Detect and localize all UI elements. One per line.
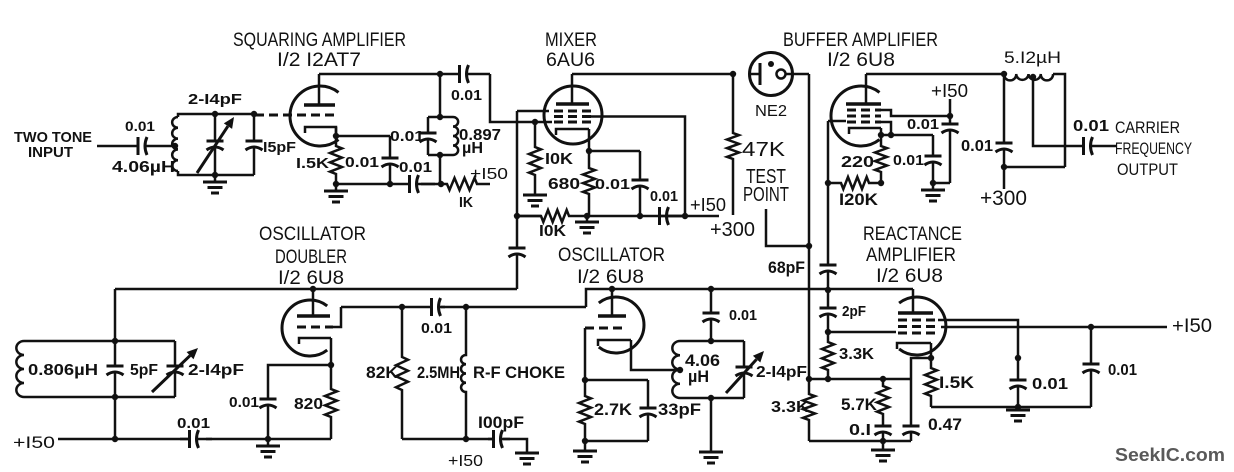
wire V3 plate up — [865, 74, 868, 104]
node mixer grid — [532, 119, 538, 125]
wire injection corner to rail — [516, 288, 519, 289]
tube V2 mixer 6AU6 — [544, 86, 602, 144]
capacitor 2-14pF doubler variable — [174, 341, 177, 366]
svg-text:I0K: I0K — [539, 223, 566, 240]
ground mixer grid — [534, 188, 537, 195]
inductor 5.12uH — [1004, 74, 1053, 80]
wire feedback line 2 — [441, 306, 586, 309]
plate V1 — [304, 103, 335, 107]
node tank bottom mid — [212, 172, 218, 178]
node V2 cathode — [586, 148, 592, 154]
ground squaring cathode — [335, 184, 338, 191]
resistor 1.5K react — [925, 358, 937, 407]
wire V2 cathode lead — [588, 129, 591, 151]
svg-text:I/2 6U8: I/2 6U8 — [278, 268, 344, 289]
capacitor 0.01 output tank — [1003, 74, 1006, 143]
svg-text:0.47: 0.47 — [928, 415, 962, 434]
wire cathode to cap — [589, 150, 640, 153]
inductor 0.806uH — [16, 341, 24, 397]
svg-text:5.7K: 5.7K — [841, 395, 878, 414]
wire V1 cathode lead — [335, 127, 338, 136]
wire coil tap down — [1033, 77, 1081, 146]
tube V4 oscillator doubler 1/2 6U8 — [282, 300, 327, 356]
inductor 4.06uH input — [172, 117, 178, 171]
node V6 cathode — [928, 355, 934, 361]
wire 82K bottom rail — [402, 438, 494, 441]
node sq ground rail left — [333, 181, 339, 187]
wire tank top vert — [439, 74, 442, 117]
node react bias rail left — [806, 376, 812, 382]
wire V1 plate rail — [319, 73, 440, 76]
tube V3 buffer 1/2 6U8 — [831, 86, 880, 146]
wire tank bottom vert — [439, 155, 442, 184]
svg-text:0.I: 0.I — [849, 422, 871, 439]
node 220 bottom — [878, 180, 884, 186]
svg-text:I/2 I2AT7: I/2 I2AT7 — [277, 50, 361, 71]
wire NE2 down to reactance — [808, 246, 811, 379]
wire V5 cathode lead — [631, 340, 680, 370]
grid V2 g2 dashed — [554, 115, 591, 118]
svg-text:0.806µH: 0.806µH — [28, 362, 98, 379]
wire V3 screen tap — [881, 110, 950, 116]
node doubler cathode ground — [265, 436, 271, 442]
node choke top — [463, 304, 469, 310]
svg-text:NE2: NE2 — [755, 103, 787, 120]
wire V3 suppressor tap — [881, 122, 891, 135]
wire react cathode bottom rail — [931, 406, 1091, 409]
wire V3 cathode lead — [880, 128, 883, 135]
svg-text:0.01: 0.01 — [595, 176, 630, 193]
svg-text:I.5K: I.5K — [939, 373, 975, 392]
node buffer screen +150 — [947, 113, 953, 119]
node +150 rail tank — [112, 436, 118, 442]
wire react grid line — [828, 331, 896, 334]
wire V2 plate up — [571, 74, 574, 104]
node react bottom ground — [1015, 404, 1021, 410]
resistor 3.3K upper — [822, 332, 834, 379]
inductor 0.897uH — [453, 117, 458, 155]
capacitor 2-14pF osc variable — [743, 341, 746, 367]
capacitor 0.01 coupling to mixer — [440, 73, 460, 76]
wire buffer grid — [828, 120, 846, 123]
electrode NE2 bar — [759, 63, 762, 85]
capacitor 0.1 — [882, 421, 885, 426]
svg-text:I0K: I0K — [545, 151, 573, 168]
svg-text:0.01: 0.01 — [1032, 376, 1068, 393]
node output tank left — [1001, 71, 1007, 77]
node mixer ground node — [584, 213, 590, 219]
wire +300 stub — [1003, 167, 1006, 189]
inductor 2.5MH RF choke — [461, 307, 466, 439]
svg-text:0.01: 0.01 — [125, 118, 155, 134]
node suppressor-cathode — [888, 132, 894, 138]
node 15pF top — [251, 111, 257, 117]
capacitor 0.01 output coupling — [1081, 145, 1084, 148]
grid V3 g3 dashed — [847, 121, 881, 124]
capacitor 0.01 +150 rail — [180, 438, 190, 441]
wire doubler cathode left — [268, 365, 331, 398]
svg-text:0.01: 0.01 — [451, 87, 482, 104]
wire tank bottom right — [215, 174, 254, 177]
ground oscillator grid — [584, 441, 587, 451]
ground react cathode — [1017, 407, 1020, 410]
svg-text:2-I4pF: 2-I4pF — [756, 364, 807, 381]
svg-text:+I50: +I50 — [13, 433, 55, 452]
svg-text:0.01: 0.01 — [421, 320, 452, 337]
node 82K top — [399, 304, 405, 310]
capacitor 0.01 +150 react — [1090, 327, 1093, 364]
svg-text:3.3K: 3.3K — [839, 346, 874, 363]
grid V6 g1 dashed — [898, 319, 935, 322]
svg-text:220: 220 — [841, 154, 874, 171]
wire +150 rail left — [58, 438, 190, 441]
capacitor 0.01 tank — [427, 117, 430, 133]
wire dbl tank to +150 rail — [114, 397, 117, 439]
svg-text:0.01: 0.01 — [399, 159, 432, 176]
node coil tap — [1030, 74, 1036, 80]
wire doubler rail down to tank — [114, 289, 117, 341]
ground osc tank — [710, 451, 713, 454]
wire feedback to osc plate — [586, 289, 612, 307]
resistor 1.5K — [330, 136, 342, 184]
wire V1 plate up — [318, 74, 321, 105]
grid V3 g1 dashed — [847, 109, 881, 112]
cathode V3 — [849, 128, 881, 134]
svg-text:I20K: I20K — [839, 190, 879, 209]
node react rail 68pF — [825, 287, 831, 293]
svg-text:DOUBLER: DOUBLER — [275, 247, 347, 268]
wire V4 grid tap — [333, 307, 341, 327]
node osc rail 0.01 — [708, 286, 714, 292]
wire dbl tank bottom bar — [24, 396, 175, 399]
svg-text:47K: 47K — [742, 139, 786, 161]
svg-text:I.5K: I.5K — [296, 155, 329, 172]
node react grid node — [825, 329, 831, 335]
resistor 220 — [875, 135, 887, 183]
resistor 2.7K — [579, 380, 591, 441]
grid V6 g3 dashed — [898, 332, 935, 335]
svg-text:FREQUENCY: FREQUENCY — [1115, 139, 1192, 158]
capacitor 100pF — [488, 438, 494, 441]
grid V2 g3 dashed — [554, 110, 591, 113]
svg-text:BUFFER AMPLIFIER: BUFFER AMPLIFIER — [783, 30, 938, 51]
resistor 120K — [828, 177, 881, 189]
capacitor 68pF — [827, 183, 830, 265]
node osc tank tap — [677, 367, 683, 373]
ground doubler cathode — [267, 439, 270, 446]
capacitor 0.01 buffer cathode — [932, 135, 935, 156]
svg-text:0.01: 0.01 — [961, 138, 993, 155]
svg-text:MIXER: MIXER — [545, 30, 597, 51]
wire V6 plate up — [912, 289, 915, 313]
svg-text:I/2 6U8: I/2 6U8 — [876, 266, 943, 287]
wire sq bottom rail — [336, 183, 404, 186]
grid V1 dashed — [255, 114, 336, 117]
wire mixer grid lead — [535, 121, 552, 124]
svg-text:3.3K: 3.3K — [771, 399, 810, 416]
node react ground node — [880, 438, 886, 444]
capacitor 0.01 injection — [516, 216, 519, 248]
ground 100pF — [526, 452, 529, 453]
arrow 2-14pF osc — [726, 359, 757, 393]
svg-text:REACTANCE: REACTANCE — [863, 224, 962, 245]
svg-text:µH: µH — [462, 140, 483, 157]
wire V6 cathode lead — [930, 343, 933, 358]
resistor 82K — [396, 307, 408, 439]
svg-text:5.I2µH: 5.I2µH — [1004, 48, 1061, 67]
wire doubler plate rail — [115, 288, 517, 291]
capacitor 2pF — [827, 290, 830, 308]
wire V4 plate up — [312, 289, 315, 316]
node osc tank top — [708, 338, 714, 344]
svg-text:2.5MH: 2.5MH — [417, 363, 460, 382]
node 5.7K top — [880, 376, 886, 382]
svg-text:OUTPUT: OUTPUT — [1117, 160, 1178, 179]
node 47K tap — [730, 71, 736, 77]
svg-text:0.01: 0.01 — [390, 128, 424, 145]
plate V3 — [846, 102, 881, 106]
svg-text:5pF: 5pF — [130, 362, 158, 379]
svg-text:INPUT: INPUT — [28, 144, 73, 161]
cathode V1 — [305, 127, 336, 133]
wire NE2 right lead — [786, 73, 810, 76]
svg-text:IK: IK — [459, 194, 473, 211]
svg-text:4.06µH: 4.06µH — [112, 159, 175, 176]
svg-text:2-I4pF: 2-I4pF — [188, 91, 242, 108]
grid V5 dashed — [585, 327, 627, 330]
plate V6 — [898, 311, 933, 315]
wire tank top right — [215, 113, 254, 116]
wire tank bottom bar — [1004, 166, 1065, 169]
wire coil bottom corner — [178, 171, 215, 175]
capacitor 0.47 — [910, 379, 913, 426]
svg-text:0.01: 0.01 — [229, 394, 259, 411]
svg-text:0.01: 0.01 — [907, 116, 939, 133]
svg-text:33pF: 33pF — [658, 400, 701, 419]
wire osc tank top bar — [680, 340, 744, 343]
node V3 cathode — [878, 132, 884, 138]
node +150 rail react — [1088, 324, 1094, 330]
svg-text:0.01: 0.01 — [177, 415, 210, 432]
capacitor 0.01 input coupling — [135, 145, 138, 148]
inductor 4.06uH osc — [672, 341, 680, 398]
wire V6 screen right — [938, 320, 1018, 358]
node doubler plate — [310, 286, 316, 292]
capacitor 2-14pF input variable — [214, 114, 217, 141]
plate V2 — [556, 102, 589, 106]
resistor 3.3K left — [803, 379, 815, 441]
node doubler cathode — [328, 362, 334, 368]
node osc plate — [609, 286, 615, 292]
wire osc grid rail — [585, 379, 648, 382]
node input-coil tap — [172, 143, 178, 149]
wire feedback line — [341, 306, 429, 309]
node plate rail tank — [437, 71, 443, 77]
node tank bottom junction — [438, 181, 444, 187]
ground buffer — [932, 183, 935, 190]
wire test point leader — [766, 209, 809, 246]
wire buffer grid down — [827, 121, 830, 183]
capacitor 0.01 buffer screen — [949, 116, 952, 124]
node tank top — [437, 114, 443, 120]
wire V2 plate rail — [572, 73, 733, 76]
svg-text:I5pF: I5pF — [263, 139, 296, 156]
svg-text:AMPLIFIER: AMPLIFIER — [866, 245, 956, 266]
wire screen cap to ground — [933, 182, 950, 185]
capacitor 0.01 react cathode — [1017, 358, 1020, 380]
svg-text:+I50: +I50 — [448, 453, 483, 470]
plate V4 — [297, 314, 330, 318]
svg-text:0.01: 0.01 — [1108, 362, 1137, 379]
svg-text:2-I4pF: 2-I4pF — [188, 362, 244, 379]
svg-text:820: 820 — [294, 396, 323, 413]
wire osc injection to g3 — [517, 110, 549, 113]
arrow 2-14pF doubler — [152, 356, 190, 392]
wire coil top corner — [178, 114, 215, 117]
node osc grid node — [582, 377, 588, 383]
svg-text:OSCILLATOR: OSCILLATOR — [558, 245, 665, 266]
capacitor 5pF — [114, 341, 117, 366]
capacitor 0.01 doubler cathode — [267, 398, 270, 399]
node osc grid ground — [582, 438, 588, 444]
svg-text:R-F CHOKE: R-F CHOKE — [473, 363, 565, 382]
capacitor 0.01 cathode bypass sq — [389, 136, 392, 158]
node 3.3K upper bottom — [825, 376, 831, 382]
wire +150 buffer lead — [949, 99, 952, 116]
wire tap to coil — [172, 145, 178, 148]
node buffer grid 120K — [825, 180, 831, 186]
resistor 680 — [583, 151, 595, 216]
wire cathode to 0.47 — [911, 358, 931, 379]
svg-text:+300: +300 — [710, 219, 755, 241]
node tank top mid — [212, 111, 218, 117]
resistor 10K mixer bottom — [517, 210, 587, 222]
tube V1 squaring amplifier 1/2 12AT7 — [290, 86, 339, 146]
wire osc tank bottom bar — [680, 397, 744, 400]
wire +150 rail mid — [206, 438, 268, 441]
cathode V4 — [299, 338, 331, 344]
svg-text:µH: µH — [688, 367, 709, 386]
svg-text:82K: 82K — [366, 363, 399, 382]
svg-text:0.01: 0.01 — [345, 154, 379, 171]
svg-text:+I50: +I50 — [690, 195, 726, 215]
lamp NE2 — [750, 53, 793, 96]
svg-text:0.01: 0.01 — [1073, 118, 1109, 135]
ground input tank — [214, 175, 217, 182]
svg-text:POINT: POINT — [743, 184, 789, 206]
wire NE2 down long — [808, 74, 811, 246]
wire injection vertical — [516, 111, 519, 216]
node osc tank bottom — [708, 395, 714, 401]
wire cathode rail — [336, 135, 390, 138]
resistor 820 — [325, 365, 337, 439]
capacitor 0.01 osc tank top — [710, 289, 713, 313]
svg-text:0.01: 0.01 — [729, 307, 757, 324]
wire sq bottom rail 2 — [421, 183, 441, 186]
tube V5 oscillator 1/2 6U8 — [599, 297, 644, 353]
wire mixer bottom rail — [517, 215, 541, 218]
svg-text:I00pF: I00pF — [478, 413, 524, 432]
wire tank top right — [1053, 74, 1065, 167]
svg-text:CARRIER: CARRIER — [1115, 118, 1180, 137]
cathode V6 — [897, 343, 931, 349]
resistor 1K — [441, 178, 490, 190]
wire react bias rail — [809, 378, 911, 381]
node mixer screen bottom — [682, 213, 688, 219]
arrow 2-14pF input — [197, 126, 228, 173]
grid V4 dashed — [297, 326, 333, 329]
svg-text:68pF: 68pF — [768, 258, 805, 277]
tube V6 reactance 1/2 6U8 — [899, 297, 946, 355]
node dbl tank top — [112, 338, 118, 344]
node react cath cap top — [1015, 355, 1021, 361]
ground mixer cathode rail — [586, 216, 589, 222]
svg-text:0.01: 0.01 — [650, 188, 678, 205]
wire osc plate rail — [612, 288, 913, 291]
svg-text:SQUARING AMPLIFIER: SQUARING AMPLIFIER — [233, 30, 406, 51]
cathode V5 — [598, 340, 631, 346]
resistor 47K — [727, 74, 739, 215]
svg-text:+I50: +I50 — [931, 81, 968, 101]
grid V3 g2 dashed — [847, 115, 881, 118]
electrode NE2 dot — [768, 61, 774, 67]
capacitor 0.01 screen series — [660, 215, 686, 218]
svg-text:0.01: 0.01 — [893, 152, 924, 169]
node injection 10K tap — [514, 213, 520, 219]
wire input — [97, 145, 135, 148]
grid V2 g1 dashed — [554, 121, 591, 124]
node test point — [806, 243, 812, 249]
svg-text:+I50: +I50 — [1172, 316, 1212, 337]
wire rail to screen node — [587, 215, 685, 218]
grid V6 g2 dashed — [898, 325, 935, 328]
wire tank top bar — [428, 116, 453, 119]
wire react bottom rail — [809, 440, 911, 443]
wire osc tank ground stem — [710, 398, 713, 452]
node buffer ground — [930, 180, 936, 186]
node V1 cathode — [333, 133, 339, 139]
svg-text:I/2 6U8: I/2 6U8 — [577, 267, 644, 288]
wire 100pF to ground — [503, 439, 527, 452]
svg-text:+I50: +I50 — [470, 166, 508, 183]
wire dbl tank top bar — [24, 340, 175, 343]
resistor 10K mixer grid — [529, 122, 541, 188]
electrode NE2 circle — [777, 70, 786, 79]
cathode V2 — [556, 129, 589, 135]
wire NE2 left lead — [750, 73, 761, 76]
ground reactance — [882, 441, 885, 450]
wire V5 plate up — [611, 289, 614, 316]
svg-text:I/2 6U8: I/2 6U8 — [827, 50, 895, 71]
capacitor 33pF — [647, 380, 650, 408]
resistor 5.7K — [877, 379, 889, 421]
svg-text:2pF: 2pF — [842, 303, 866, 320]
svg-text:OSCILLATOR: OSCILLATOR — [259, 224, 366, 245]
capacitor 0.01 feedback — [429, 306, 432, 309]
wire buffer plate rail — [866, 73, 1004, 76]
svg-text:2.7K: 2.7K — [594, 400, 633, 419]
wire tank bottom bar — [428, 154, 453, 157]
svg-text:680: 680 — [548, 176, 580, 193]
node output tank bottom — [1001, 164, 1007, 170]
capacitor 0.01 series to 1K — [404, 183, 410, 186]
node sq 0.01 bottom — [387, 181, 393, 187]
svg-text:6AU6: 6AU6 — [546, 50, 595, 71]
wire 820 bottom rail — [268, 438, 331, 441]
wire mixer screen — [591, 117, 685, 217]
node dbl tank bottom — [112, 394, 118, 400]
node mixer cath cap bottom — [637, 213, 643, 219]
